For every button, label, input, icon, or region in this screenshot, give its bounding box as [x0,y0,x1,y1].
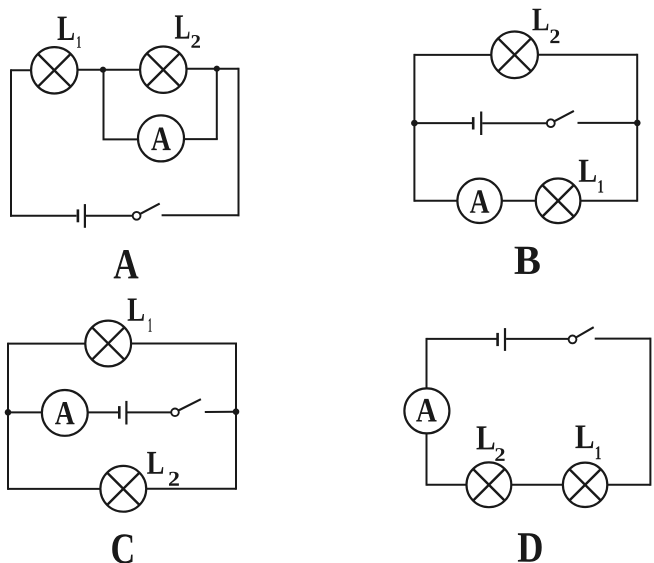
lamp L1 (circuit D) [563,463,607,507]
wire C: middle segment right [205,411,236,413]
ammeter U3 (circuit C) [42,390,88,436]
label L2 (circuit A) [175,15,200,47]
wire A: right side [238,68,240,217]
wire A: top-right segment [186,68,239,70]
wire A: ammeter branch left horizontal [103,138,139,140]
wire B: top-right segment [537,54,637,56]
wire D: right side [649,338,651,486]
wire D: top segment left [427,338,497,340]
wire C: top-left segment [8,343,86,345]
wire D: top segment battery to switch [506,338,569,340]
label L2 (circuit C) [147,452,179,486]
wire C: bottom-left segment [8,488,101,490]
wire C: top-right segment [130,343,236,345]
wire B: bottom-right segment [580,200,637,202]
node: junction right (circuit B) [634,120,641,127]
label D (answer choice) [518,533,542,561]
battery (circuit C) [119,401,126,425]
battery (circuit D) [498,328,505,351]
wire C: right side [235,343,237,490]
lamp L2 (circuit D) [467,462,512,507]
switch S (circuit D) [569,327,594,343]
wire C: left side [7,343,9,490]
node: junction left (circuit A) [100,67,106,73]
lamp L2 (circuit B) [491,32,538,79]
ammeter U2 (circuit B) [457,179,501,223]
wire B: middle segment left [414,122,472,124]
lamp L1 (circuit C) [85,321,131,367]
label L1 (circuit B) [579,160,603,193]
switch S (circuit B) [547,111,574,127]
wire B: bottom segment between ammeter and L1 [501,200,536,202]
wire B: left side [413,54,415,202]
wire D: bottom-right segment [607,484,651,486]
ammeter U1 (circuit A) [138,115,184,161]
label L2 (circuit D) [477,426,505,460]
wire A: top-left segment [11,69,32,71]
wire B: middle segment battery to switch [482,122,547,124]
wire C: bottom-right segment [146,488,236,490]
label L1 (circuit C) [128,298,152,331]
lamp L2 (circuit A) [140,46,186,92]
wire B: top-left segment [414,54,492,56]
battery (circuit A) [78,204,85,228]
ammeter U4 (circuit D) [404,388,449,433]
label B (answer choice) [515,247,540,274]
wire A: left side [10,69,12,216]
node: junction right (circuit A) [214,66,220,72]
label L1 (circuit A) [58,17,81,48]
label C (answer choice) [112,534,132,563]
wire A: right drop to ammeter branch [216,69,218,139]
wire D: bottom segment between lamps [511,484,564,486]
label A (answer choice) [114,250,139,278]
wire A: bottom-left segment [10,215,76,217]
switch S (circuit C) [171,399,201,416]
wire C: middle segment battery to switch [128,411,172,413]
node: junction right (circuit C) [233,408,240,415]
wire A: top segment between L1 and L2 [77,69,141,71]
label L1 (circuit D) [575,426,600,460]
wire D: bottom-left segment [427,484,468,486]
lamp L1 (circuit B) [536,179,581,224]
wire B: middle segment right [578,122,638,124]
node: junction left (circuit B) [411,120,418,127]
wire A: bottom-right segment [162,214,240,216]
battery (circuit B) [473,112,481,136]
wire A: bottom segment battery to switch [86,215,133,217]
wire A: left drop to ammeter branch [103,70,105,140]
label L2 (circuit B) [532,9,559,43]
lamp L1 (circuit A) [31,47,77,93]
wire D: left side upper [426,338,428,389]
node: junction left (circuit C) [5,409,12,416]
wire A: ammeter branch right horizontal [184,138,218,140]
wire C: middle segment left [8,411,43,413]
switch S (circuit A) [133,204,160,220]
lamp L2 (circuit C) [100,466,146,512]
wire B: bottom-left segment [414,200,458,202]
wire B: right side [636,54,638,202]
wire D: left side lower [426,433,428,486]
wire D: top segment right [595,338,651,340]
wire C: middle segment ammeter to battery [87,411,118,413]
